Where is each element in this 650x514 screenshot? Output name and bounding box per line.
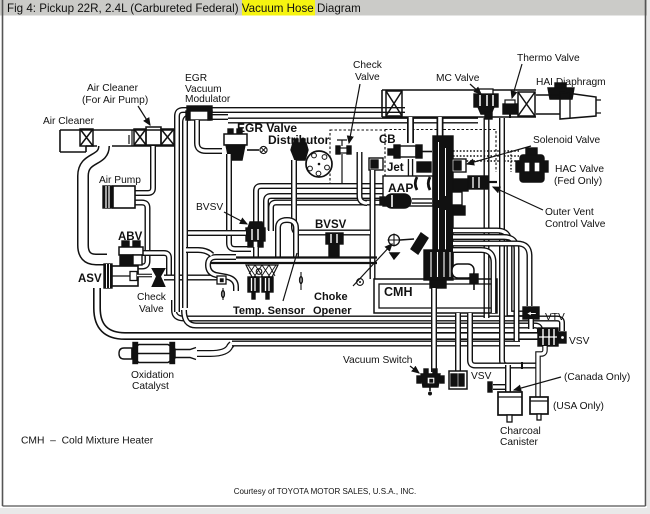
hose BVSV2 row <box>299 230 370 236</box>
air pump <box>103 186 135 208</box>
hose ABV right down to check valve junction <box>140 253 169 278</box>
big box right edge <box>484 118 490 318</box>
svg-text:VTV: VTV <box>545 312 565 323</box>
svg-text:Courtesy of TOYOTA MOTOR SALES: Courtesy of TOYOTA MOTOR SALES, U.S.A., … <box>234 487 417 496</box>
ASV valve <box>104 264 138 288</box>
MC valve component <box>474 89 498 119</box>
choke opener label arrow <box>353 244 392 286</box>
svg-text:HAC Valve: HAC Valve <box>555 164 604 175</box>
X-box air cleaner right <box>161 129 174 145</box>
hose CMH down to VSV lower <box>455 313 461 371</box>
thermo valve arrow <box>512 64 522 98</box>
svg-text:Opener: Opener <box>313 305 352 317</box>
vacuum switch component <box>417 369 444 396</box>
svg-text:Check: Check <box>353 60 383 71</box>
oxidation catalyst <box>119 343 196 364</box>
svg-text:CMH – Cold Mixture Heater: CMH – Cold Mixture Heater <box>21 436 154 447</box>
svg-text:BVSV: BVSV <box>196 202 223 213</box>
svg-text:Catalyst: Catalyst <box>132 381 169 392</box>
Jet component <box>369 158 383 170</box>
header bar <box>0 0 650 16</box>
svg-text:(Canada Only): (Canada Only) <box>564 372 630 383</box>
pipe duct down to manifold <box>437 117 444 138</box>
svg-text:Valve: Valve <box>139 304 164 315</box>
svg-text:HAI Diaphragm: HAI Diaphragm <box>536 77 606 88</box>
hose air cleaner down to ASV <box>83 146 107 260</box>
svg-text:Canister: Canister <box>500 437 539 448</box>
svg-text:BVSV: BVSV <box>315 219 347 231</box>
circled dot symbol <box>357 279 364 286</box>
EGR vacuum modulator component <box>186 106 212 120</box>
check valve top (in dashed box) <box>336 140 351 184</box>
CB component <box>388 145 432 176</box>
VSV right component <box>538 328 566 346</box>
svg-text:Jet: Jet <box>387 162 404 174</box>
solenoid valve component <box>452 159 466 172</box>
row B hose <box>266 196 433 230</box>
EGR valve <box>224 129 259 160</box>
svg-text:Solenoid Valve: Solenoid Valve <box>533 135 601 146</box>
distributor circle <box>306 151 332 177</box>
canada only arrow <box>514 377 561 390</box>
CMH box <box>374 279 497 313</box>
CMH heater cylinder <box>452 264 478 290</box>
X-box duct left <box>386 91 402 116</box>
BVSV left component <box>246 222 265 247</box>
dashed box around top check valve <box>330 130 385 188</box>
hose VSV right down to canister right <box>538 346 545 397</box>
solenoid valve arrow <box>467 146 531 164</box>
charcoal canister left inlet elbow <box>493 387 508 389</box>
svg-text:(Fed Only): (Fed Only) <box>554 176 602 187</box>
X-box air cleaner left <box>80 129 93 146</box>
hose distributor down to row A <box>294 160 299 233</box>
pin near choke <box>299 272 302 290</box>
hose ASV down and right (long bottom run) <box>97 288 538 336</box>
charcoal canister left <box>498 392 522 422</box>
outer vent arrow <box>493 187 543 210</box>
connector for air pump <box>146 127 161 145</box>
hose manifold down to vacuum switch <box>431 288 437 372</box>
carb base heavy lines <box>210 258 377 264</box>
svg-text:Distributor: Distributor <box>268 133 330 147</box>
hose from dashed box down to AAP row <box>360 152 368 203</box>
AAP pump <box>380 194 432 208</box>
svg-text:CB: CB <box>379 134 396 146</box>
svg-text:Charcoal: Charcoal <box>500 426 541 437</box>
arrow to air pump connector <box>138 106 150 125</box>
svg-text:Air Cleaner: Air Cleaner <box>87 83 139 94</box>
bundle tube C <box>453 244 530 307</box>
dashed line to solenoid area <box>385 130 496 173</box>
svg-text:Outer Vent: Outer Vent <box>545 207 594 218</box>
bundle tube D <box>453 250 494 313</box>
VSV lower component <box>449 371 467 389</box>
svg-text:CMH: CMH <box>384 285 412 299</box>
hose crescent marks <box>415 177 430 190</box>
needle pin <box>221 288 224 300</box>
distributor cap <box>291 139 308 160</box>
hose down to left canister <box>505 365 511 392</box>
svg-text:Choke: Choke <box>314 291 348 303</box>
charcoal canister right <box>530 397 548 420</box>
svg-text:AAP: AAP <box>388 181 413 195</box>
air cleaner duct <box>60 130 177 152</box>
svg-text:Temp. Sensor: Temp. Sensor <box>233 305 306 317</box>
page borders <box>2 0 4 506</box>
HAI diaphragm component <box>548 83 574 99</box>
hose modulator down to EGR valve <box>197 120 222 151</box>
long hose from duct down right side to canada line <box>502 118 507 366</box>
carb fitting square <box>217 276 226 284</box>
thermo valve component <box>503 100 517 118</box>
hose VTV down to VSV <box>528 319 534 329</box>
X-box duct right <box>518 92 535 116</box>
arrow check valve top label <box>349 84 360 143</box>
bundle tube A manifold to VTV <box>453 231 523 314</box>
AAP box <box>383 176 433 206</box>
BVSV left stem <box>253 247 259 257</box>
svg-text:Valve: Valve <box>355 72 380 83</box>
svg-text:Air Cleaner: Air Cleaner <box>43 116 95 127</box>
svg-text:VSV: VSV <box>569 336 590 347</box>
check valve left <box>130 269 165 287</box>
U loop hose <box>278 220 296 258</box>
svg-text:(For Air Pump): (For Air Pump) <box>82 95 148 106</box>
svg-text:Fig 4: Pickup 22R, 2.4L (Carbu: Fig 4: Pickup 22R, 2.4L (Carbureted Fede… <box>7 2 361 15</box>
svg-text:ASV: ASV <box>78 273 102 285</box>
vacuum switch arrow <box>410 366 419 373</box>
hose EGR valve down to row A <box>229 154 251 249</box>
svg-text:ABV: ABV <box>118 231 143 243</box>
svg-text:Oxidation: Oxidation <box>131 370 174 381</box>
HAC valve component <box>516 148 548 182</box>
svg-text:Control Valve: Control Valve <box>545 219 606 230</box>
carb venturi hatched trapezoid <box>246 265 278 277</box>
manifold bottom blob <box>424 250 453 288</box>
outer vent control valve component <box>468 176 497 189</box>
hose CMH right down to canada line <box>470 313 537 366</box>
manifold right attachments <box>452 179 468 215</box>
svg-text:(USA Only): (USA Only) <box>553 401 604 412</box>
VTV component <box>523 307 539 319</box>
hose catalyst right, curving up to long run <box>197 344 232 354</box>
manifold black bar <box>433 136 453 276</box>
junction tick <box>521 362 523 369</box>
right air duct <box>382 90 536 117</box>
X-box air cleaner mid <box>134 129 146 145</box>
circled symbol near EGR valve <box>260 146 267 153</box>
pipe duct down to CB <box>407 117 414 143</box>
svg-text:Modulator: Modulator <box>185 94 231 105</box>
long hose runs under box <box>174 300 562 331</box>
svg-text:Vacuum Switch: Vacuum Switch <box>343 355 412 366</box>
choke opener valve <box>388 233 429 259</box>
hose check valve to carb fitting <box>164 275 217 281</box>
row C hose <box>271 203 433 232</box>
ABV valve <box>119 241 143 266</box>
hose Jet down to CMH box <box>370 170 376 279</box>
manifold left arm <box>417 162 431 172</box>
hose box edge to BVSV left <box>188 230 246 236</box>
svg-text:Air Pump: Air Pump <box>99 175 141 186</box>
svg-text:Check: Check <box>137 292 167 303</box>
carb horn S-curve <box>208 257 236 291</box>
big box inner border <box>185 117 228 308</box>
hose air pump down to ABV <box>135 203 148 267</box>
bundle tube B <box>453 237 517 341</box>
dotted hoses to HAC valve <box>453 151 519 161</box>
MC valve arrow <box>470 84 481 94</box>
svg-text:VSV: VSV <box>471 371 492 382</box>
svg-text:EGR: EGR <box>185 73 207 84</box>
temp sensor pistons <box>248 269 273 299</box>
hose air pump up to duct <box>135 146 153 193</box>
intake horn <box>536 92 601 119</box>
arrow BVSV left <box>224 212 247 224</box>
svg-text:MC Valve: MC Valve <box>436 73 480 84</box>
hose box edge to carb horn <box>186 250 212 255</box>
row A hose <box>256 186 433 222</box>
big box outer border <box>177 110 405 312</box>
svg-text:Thermo Valve: Thermo Valve <box>517 53 580 64</box>
inner top hose <box>228 118 478 124</box>
BVSV mid component <box>326 233 343 257</box>
temp sensor label arrow <box>283 253 297 301</box>
